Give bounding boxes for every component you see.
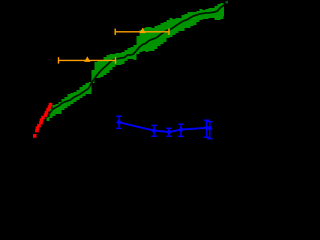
- blue point P4 error bar: [178, 124, 184, 136]
- blue point P3 error bar: [166, 128, 172, 136]
- upper orange error bar: [115, 29, 169, 35]
- green confidence band: [47, 3, 225, 121]
- red detached blob: [33, 134, 37, 138]
- blue diamond marker P3: [166, 129, 172, 135]
- blue series connecting line: [119, 122, 210, 132]
- blue diamond marker P2: [151, 128, 157, 134]
- best-fit center line: [47, 6, 225, 118]
- blue diamond marker P5b: [207, 125, 213, 131]
- blue diamond marker P1: [116, 119, 122, 125]
- lower orange error bar: [59, 57, 116, 63]
- blue point P5b error bar: [207, 122, 213, 139]
- blue point P1 error bar: [116, 116, 122, 128]
- upper orange triangle marker: [140, 28, 146, 33]
- blue diamond marker P5a: [204, 125, 210, 131]
- blue point P2 error bar: [151, 125, 157, 136]
- red lower-limit marker cluster: [49, 103, 53, 107]
- green band tip speck top-right: [226, 1, 229, 4]
- blue point P5a error bar: [204, 120, 210, 137]
- lower orange triangle marker: [84, 56, 90, 62]
- blue diamond marker P4: [178, 127, 184, 133]
